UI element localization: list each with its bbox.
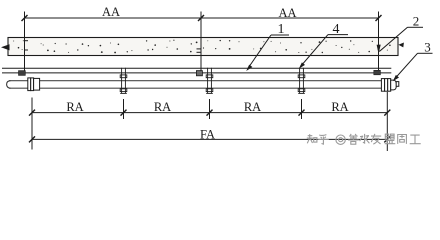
- leader 1 underline: [271, 34, 289, 36]
- concrete slab (item 1 area): [8, 38, 398, 56]
- watermark char 友: [371, 134, 381, 144]
- leader 2 line: [379, 27, 407, 51]
- AA extension line left: [24, 12, 26, 71]
- RA extension line 1 (left, shared with FA): [31, 98, 33, 150]
- RA dimension line: [32, 112, 387, 114]
- rail clamp block left: [19, 71, 26, 76]
- leader 4 line: [301, 35, 329, 67]
- rail clamp block middle: [196, 71, 202, 76]
- pipe top line: [9, 80, 381, 82]
- leader 3 underline: [418, 52, 433, 54]
- leader 2 underline: [408, 26, 424, 28]
- support rail (flat bar) top line: [2, 67, 391, 69]
- svg-text:RA: RA: [66, 100, 83, 114]
- RA extension line 5 (right, shared with FA): [386, 92, 388, 151]
- anchor tick marks inside slab at middle extension: [197, 48, 201, 50]
- watermark char 周: [398, 135, 407, 144]
- watermark char 知: [307, 134, 317, 143]
- RA extension line 2: [123, 99, 125, 119]
- leader 1 line: [248, 35, 271, 69]
- svg-text:2: 2: [413, 14, 420, 29]
- watermark char 工: [410, 135, 421, 144]
- svg-text:3: 3: [424, 40, 431, 55]
- rail clamp block right: [374, 70, 381, 75]
- leader 3 line: [395, 53, 418, 79]
- FA ticks: [29, 136, 35, 142]
- watermark char 盟: [385, 134, 396, 144]
- RA extension line 3: [209, 99, 211, 119]
- leader 1 arrowhead: [246, 65, 252, 71]
- svg-text:RA: RA: [331, 100, 348, 114]
- FA dimension line: [32, 138, 387, 140]
- leader 3 arrowhead: [393, 75, 399, 81]
- pipe bottom line: [9, 87, 381, 89]
- svg-text:AA: AA: [102, 5, 120, 19]
- support rail bottom line: [2, 72, 391, 74]
- anchor tick marks inside slab at left extension: [24, 40, 28, 42]
- left break arrow on slab edge: [1, 44, 10, 50]
- AA tick middle: [198, 15, 204, 21]
- leader 2 edge arrowhead at slab right edge: [398, 43, 404, 48]
- pipe left end cap: [7, 81, 11, 89]
- watermark char 乎: [318, 135, 329, 145]
- watermark char 水: [360, 134, 370, 143]
- pipe end fitting right: [381, 79, 398, 92]
- svg-text:RA: RA: [244, 100, 261, 114]
- leader 4 arrowhead: [299, 62, 305, 68]
- leader 2 arrowhead (down along extension): [377, 45, 381, 54]
- AA tick right: [376, 15, 382, 21]
- AA extension line middle: [200, 12, 202, 71]
- slab stipple texture: [13, 40, 390, 54]
- AA tick left: [22, 15, 28, 21]
- leader 4 underline: [328, 34, 348, 36]
- svg-text:FA: FA: [200, 127, 215, 141]
- RA ticks: [29, 110, 35, 116]
- watermark 知乎 @善水友盟周工 (drawn as vector strokes): [307, 134, 421, 145]
- hanger rod 1: [120, 68, 127, 94]
- svg-text:AA: AA: [278, 6, 296, 20]
- AA dimension line: [25, 17, 379, 19]
- AA extension line right: [378, 12, 380, 71]
- RA extension line 4: [301, 99, 303, 119]
- watermark char @: [336, 135, 345, 144]
- svg-text:RA: RA: [154, 100, 171, 114]
- hanger rod 2: [206, 68, 213, 94]
- watermark char 善: [348, 134, 359, 144]
- hanger rod 3: [298, 68, 305, 94]
- pipe union coupling at left: [28, 78, 31, 91]
